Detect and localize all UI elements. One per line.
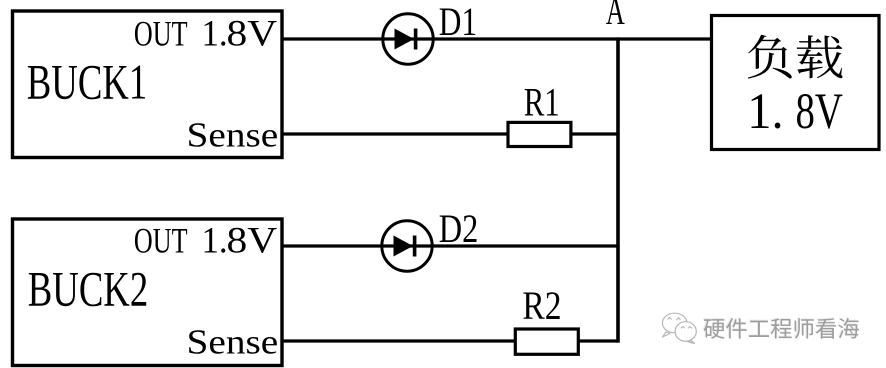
svg-text:D1: D1 xyxy=(439,0,477,44)
svg-text:1.: 1. xyxy=(747,83,783,139)
svg-text:BUCK1: BUCK1 xyxy=(27,56,147,111)
svg-text:Sense: Sense xyxy=(187,117,279,155)
svg-text:8V: 8V xyxy=(227,221,278,261)
svg-text:1.: 1. xyxy=(202,220,228,261)
wire Sense1 to node xyxy=(281,132,618,135)
svg-text:8V: 8V xyxy=(796,83,844,139)
svg-text:OUT: OUT xyxy=(134,14,188,54)
svg-text:8V: 8V xyxy=(227,14,278,54)
BUCK1 box U1 xyxy=(13,11,283,158)
watermark text 硬件工程师看海 xyxy=(703,318,725,339)
wire vertical net at node A xyxy=(616,37,620,342)
svg-text:BUCK2: BUCK2 xyxy=(28,263,148,318)
wire OUT2 to node xyxy=(281,244,618,247)
svg-text:D2: D2 xyxy=(439,207,479,251)
resistor R1 xyxy=(508,122,571,146)
wire Sense2 to node xyxy=(281,339,618,342)
diode D1 xyxy=(383,14,433,64)
diode D2 xyxy=(382,221,432,271)
load label 负载 xyxy=(748,35,792,79)
watermark icon eyes xyxy=(668,318,692,329)
svg-text:OUT: OUT xyxy=(134,221,188,261)
BUCK2 box U2 xyxy=(13,219,283,366)
svg-text:1.: 1. xyxy=(202,13,228,54)
load box 负载 1.8V xyxy=(712,16,880,150)
svg-text:Sense: Sense xyxy=(187,324,279,362)
watermark wechat icon xyxy=(662,313,696,343)
resistor R2 xyxy=(515,329,578,354)
svg-text:A: A xyxy=(606,0,625,33)
wire OUT1 to load (net A) xyxy=(281,37,712,40)
svg-text:R2: R2 xyxy=(522,283,561,327)
svg-text:R1: R1 xyxy=(524,80,560,125)
